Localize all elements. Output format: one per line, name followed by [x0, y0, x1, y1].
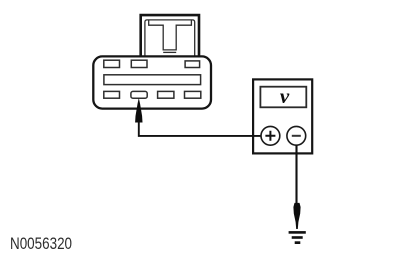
pin B3 (bottom row) [158, 91, 174, 98]
positive probe tip at pin B2 [135, 98, 142, 123]
positive terminal [261, 126, 280, 145]
ground bar 2 [292, 236, 303, 239]
center blade slot [104, 75, 201, 85]
wire from negative terminal [295, 145, 297, 203]
ground bar 3 [295, 241, 301, 244]
pin B1 (bottom row, left) [104, 91, 120, 98]
connector tab inner wall [145, 20, 195, 56]
pin B4 (bottom row, right) [185, 91, 201, 98]
negative probe tip [293, 203, 300, 229]
connector body [93, 56, 211, 108]
pin A4 (top row, right) [185, 61, 200, 68]
svg-text:ν: ν [280, 84, 290, 108]
pin A1 (top row, left) [104, 60, 120, 67]
plus sign [265, 131, 275, 141]
pin B2 (bottom row, test point) [131, 91, 147, 98]
negative terminal [287, 126, 306, 145]
wire from positive probe [139, 122, 262, 136]
voltmeter display window [260, 87, 306, 108]
figure number label [10, 235, 72, 254]
connector tab outer shroud [141, 15, 199, 56]
minus sign [292, 135, 301, 137]
tab T-shaped key [149, 20, 192, 52]
voltmeter U1 body [253, 79, 312, 153]
ground bar 1 [289, 231, 306, 234]
pin A2 (top row, middle) [131, 60, 147, 67]
